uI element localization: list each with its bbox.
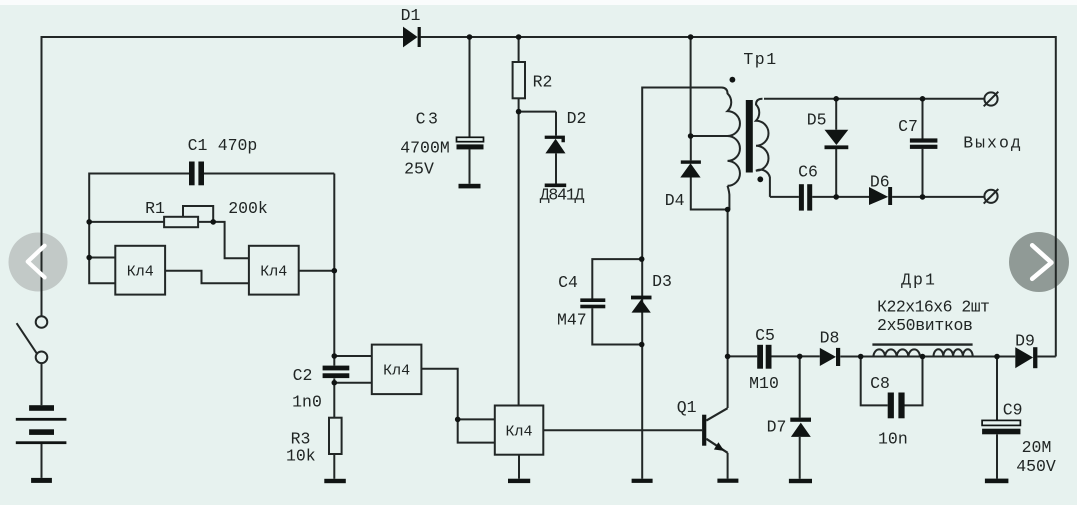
wire top rail left <box>42 36 404 38</box>
resistor R1 body <box>164 217 198 227</box>
svg-text:C3: C3 <box>416 110 441 129</box>
svg-text:10k: 10k <box>286 447 316 466</box>
svg-text:D8: D8 <box>820 329 840 348</box>
ground under C4 D3 rail <box>632 479 653 483</box>
capacitor C3 electrolytic plates <box>457 137 484 141</box>
wire gate1 out to gate2 input <box>165 271 249 284</box>
wire D2 to ground <box>555 153 557 183</box>
wire battery to ground <box>41 444 43 478</box>
svg-text:Кл4: Кл4 <box>260 264 287 281</box>
diode D3 <box>632 299 651 312</box>
capacitor C4 plates <box>580 298 605 302</box>
wire collector rail <box>727 210 729 409</box>
wire secondary top to output terminal <box>764 98 985 100</box>
junction dot choke mid <box>920 354 926 360</box>
wire C4 D3 left rail to ground <box>641 87 643 479</box>
svg-text:Выход: Выход <box>963 134 1023 153</box>
wire C4 branch bottom <box>592 308 641 344</box>
svg-text:M10: M10 <box>749 374 779 393</box>
junction dot top rail C3 <box>467 34 473 40</box>
junction dot D5 top <box>833 96 839 102</box>
wire top rail right and right-side rail <box>421 37 1056 357</box>
svg-text:D1: D1 <box>401 6 421 25</box>
svg-text:Кл4: Кл4 <box>127 264 154 281</box>
wire gate2 out <box>299 270 335 272</box>
wire C8 bridge right <box>905 357 923 406</box>
junction dot R1 wiper <box>210 219 216 225</box>
svg-text:D6: D6 <box>870 173 890 192</box>
coil primary Tp1 <box>722 88 740 186</box>
svg-text:Др1: Др1 <box>901 271 937 290</box>
svg-text:C1: C1 <box>188 136 208 155</box>
wire C7 bottom <box>922 149 924 197</box>
wire C5 right to D8 <box>772 355 820 357</box>
resistor R2 <box>513 62 525 98</box>
wire C3 to ground <box>469 149 471 184</box>
svg-text:C2: C2 <box>293 366 313 385</box>
wire D6 to bottom terminal <box>892 196 985 198</box>
junction dot C2 top <box>332 353 338 359</box>
svg-text:Д841Д: Д841Д <box>540 186 585 205</box>
wire C2 bottom stub to gate3 <box>334 382 372 384</box>
wire C9 bottom <box>996 434 998 478</box>
choke Dp1 core line <box>872 343 972 345</box>
wire D8 out to choke <box>840 356 869 358</box>
diode D1 <box>403 27 418 48</box>
svg-text:450V: 450V <box>1016 457 1056 476</box>
resistor R3 <box>329 418 342 454</box>
diode D5 <box>825 130 849 145</box>
transformer primary polarity dot <box>730 77 736 83</box>
wire C4 branch top <box>592 259 641 299</box>
wire R2 bottom rail to gate4 <box>518 98 520 405</box>
ground under C3 <box>459 184 481 189</box>
capacitor C5 plates <box>757 345 763 369</box>
junction dot gate2 out rail <box>332 268 338 274</box>
svg-text:R2: R2 <box>533 73 553 92</box>
output terminal bottom <box>984 190 997 203</box>
transformer core bar <box>746 100 753 173</box>
zener diode D2 with hooked cathode bar <box>545 139 565 154</box>
gate box1 <box>115 246 165 295</box>
svg-text:200k: 200k <box>228 199 268 218</box>
wire C2 top stub to gate3 <box>334 355 372 357</box>
wire transformer mid tap <box>691 135 728 137</box>
gate box2 <box>249 246 299 295</box>
svg-text:25V: 25V <box>404 160 434 179</box>
svg-text:К22х16х6 2шт: К22х16х6 2шт <box>877 298 989 317</box>
svg-text:D4: D4 <box>665 191 685 210</box>
junction dot choke right C9 <box>994 354 1000 360</box>
wire choke baseline <box>861 356 997 358</box>
wire gate1 upper input stub <box>89 257 115 259</box>
junction dot gate1 input <box>86 255 92 261</box>
capacitor C7 plates <box>910 138 938 142</box>
battery plate thick short 2 <box>29 429 54 435</box>
wire C7 top <box>922 99 924 139</box>
junction dot C7 top <box>920 96 926 102</box>
diode D4 <box>680 163 700 177</box>
wire left osc rail into gate1 <box>89 173 115 284</box>
junction dot C2 bottom <box>332 380 338 386</box>
wire D5 top <box>835 99 837 130</box>
svg-text:C8: C8 <box>870 374 890 393</box>
wire D5 bottom <box>835 149 837 197</box>
wire gate4 ground stub <box>518 455 520 479</box>
diode D7 <box>791 423 811 437</box>
svg-text:Тр1: Тр1 <box>743 50 777 69</box>
svg-text:470p: 470p <box>218 136 258 155</box>
svg-text:2х50витков: 2х50витков <box>877 316 973 335</box>
svg-text:Q1: Q1 <box>677 398 697 417</box>
wire R2 top <box>518 37 520 62</box>
top white strip <box>0 0 1077 5</box>
output terminal top <box>984 92 997 105</box>
diode D8 <box>820 348 836 366</box>
junction dot transformer mid tap <box>688 133 694 139</box>
svg-text:C9: C9 <box>1003 401 1023 420</box>
wire transformer top drop <box>690 37 692 136</box>
gate box4 <box>495 406 544 455</box>
junction dot D4 collector node <box>725 207 731 213</box>
capacitor C6 plates <box>799 184 804 210</box>
svg-text:C5: C5 <box>755 326 775 345</box>
wire primary coil tail <box>728 186 730 210</box>
wire mid rail C1 to C2 <box>333 174 335 366</box>
ground under R3 <box>324 479 346 483</box>
wire R1 right to gate2 input <box>198 222 249 258</box>
wire R1 left <box>89 221 164 223</box>
capacitor C2 plates <box>323 366 350 371</box>
ground under D7 <box>789 479 812 483</box>
transistor Q1 <box>702 408 728 478</box>
wire gate3 out to gate4 inputs <box>421 369 494 443</box>
junction dot C7 bottom <box>920 194 926 200</box>
svg-text:C6: C6 <box>798 163 818 182</box>
junction dot R2 bottom <box>516 109 522 115</box>
wire bottom out rail C6 to D6 <box>770 196 869 198</box>
svg-text:C4: C4 <box>558 273 578 292</box>
battery plate long thin 2 <box>16 441 67 444</box>
junction dot R1 left <box>86 219 92 225</box>
wire C5 left <box>728 355 758 357</box>
junction dot top rail transformer <box>688 34 694 40</box>
svg-text:Кл4: Кл4 <box>383 363 410 380</box>
wire C1 left <box>89 173 189 175</box>
svg-text:Кл4: Кл4 <box>505 423 532 440</box>
right nav chevron <box>1032 245 1051 278</box>
wire C2 to R3 <box>333 378 335 417</box>
ground under Q1 emitter <box>717 479 738 483</box>
wire C3 drop <box>469 37 471 138</box>
ground under gate4 <box>508 479 530 483</box>
wire C1 right <box>204 173 334 175</box>
coil secondary Tp1 <box>756 99 770 197</box>
junction dot choke left <box>858 354 864 360</box>
junction dot top rail R2 <box>516 34 522 40</box>
junction dot D5 bottom <box>833 194 839 200</box>
choke coil 2 <box>934 349 973 356</box>
svg-text:D9: D9 <box>1015 332 1035 351</box>
capacitor C9 electrolytic plates <box>982 420 1020 425</box>
wire node R2 to D2 <box>519 112 556 136</box>
wire R3 to ground <box>333 454 335 479</box>
svg-text:C7: C7 <box>898 117 918 136</box>
wire C9 top <box>996 357 998 421</box>
switch contact circle bottom <box>36 352 48 364</box>
wire switch to battery <box>41 363 43 405</box>
junction dot C4 top <box>639 256 645 262</box>
switch contact circle top <box>36 316 48 328</box>
wire left rail <box>41 36 43 316</box>
capacitor C8 plates <box>888 393 894 419</box>
ground bar under D2 <box>545 184 567 188</box>
wire D9 out <box>1037 356 1055 358</box>
diode D6 <box>869 187 888 205</box>
svg-text:R1: R1 <box>145 199 165 218</box>
left nav button circle <box>9 233 68 292</box>
diode D9 <box>1015 347 1033 368</box>
wire primary top <box>643 87 722 89</box>
junction dot C5 D7 D8 <box>797 354 803 360</box>
left nav chevron <box>28 246 45 278</box>
svg-text:10n: 10n <box>878 430 908 449</box>
switch arm <box>17 323 37 353</box>
capacitor C1 plates <box>189 162 195 186</box>
junction dot gate3 out <box>455 417 461 423</box>
svg-text:D5: D5 <box>807 111 827 130</box>
wire C8 bridge left <box>861 357 888 406</box>
ground under C9 <box>985 479 1009 484</box>
svg-text:4700M: 4700M <box>400 139 450 158</box>
wire D4 top <box>690 136 692 160</box>
ground under battery <box>31 478 52 483</box>
svg-text:D2: D2 <box>567 109 587 128</box>
transformer secondary polarity dot <box>757 176 763 182</box>
svg-text:1n0: 1n0 <box>292 393 322 412</box>
svg-text:D7: D7 <box>767 418 787 437</box>
battery plate thick short 1 <box>29 405 54 411</box>
wire D7 to ground <box>799 437 801 479</box>
gate box3 <box>372 345 422 395</box>
choke coil 1 <box>873 349 920 356</box>
svg-text:M47: M47 <box>557 311 587 330</box>
wire gate4 out to Q1 base <box>543 429 702 431</box>
wire choke out to D9 <box>997 356 1015 358</box>
wire D4 bottom to collector node <box>691 178 728 210</box>
svg-text:20M: 20M <box>1022 438 1052 457</box>
battery plate long thin 1 <box>16 418 67 421</box>
right nav button circle <box>1009 232 1069 292</box>
junction dot C4 bottom <box>639 342 645 348</box>
svg-text:D3: D3 <box>652 272 672 291</box>
wire D7 drop <box>799 356 801 417</box>
wire R1 wiper <box>183 206 213 221</box>
junction dot collector C5 <box>725 354 731 360</box>
